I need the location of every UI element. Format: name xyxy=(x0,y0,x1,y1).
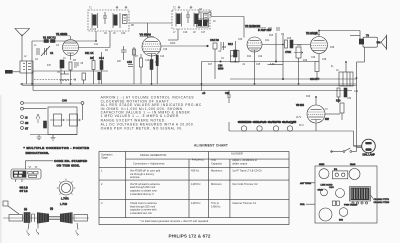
svg-text:Minimum: Minimum xyxy=(211,182,222,186)
svg-text:Via 470M0 pF to conv grid: Via 470M0 pF to conv grid xyxy=(130,169,161,173)
svg-text:C15: C15 xyxy=(127,60,132,64)
svg-text:Check input to antenna: Check input to antenna xyxy=(130,201,157,205)
svg-text:capacitor to series with: capacitor to series with xyxy=(130,208,157,212)
svg-text:ALIGNER: ALIGNER xyxy=(231,152,243,156)
svg-text:CB 4881 PTR/S: CB 4881 PTR/S xyxy=(374,202,390,204)
svg-text:R12: R12 xyxy=(228,42,233,46)
svg-text:antenna.: antenna. xyxy=(130,175,140,179)
svg-text:6.8K: 6.8K xyxy=(270,64,275,66)
svg-text:R13: R13 xyxy=(269,35,274,37)
svg-text:R19: R19 xyxy=(306,96,311,98)
svg-text:C26: C26 xyxy=(311,57,316,59)
svg-text:Via 50 uA lead to antenna: Via 50 uA lead to antenna xyxy=(130,182,160,186)
svg-text:+B: +B xyxy=(202,91,206,95)
svg-text:R6: R6 xyxy=(90,56,94,60)
svg-text:INDICATIONS.: INDICATIONS. xyxy=(26,151,50,155)
svg-text:C40: C40 xyxy=(62,99,67,103)
svg-text:Connections + Adjustments: Connections + Adjustments xyxy=(133,161,165,165)
svg-text:C28: C28 xyxy=(322,59,327,61)
svg-text:a standard osc coil: a standard osc coil xyxy=(130,211,152,215)
svg-text:R14: R14 xyxy=(247,56,252,58)
svg-text:(b): (b) xyxy=(50,208,53,211)
svg-text:PWR TRANS: PWR TRANS xyxy=(344,204,358,207)
svg-text:C1: C1 xyxy=(50,51,54,55)
svg-text:117V: 117V xyxy=(296,117,302,119)
svg-text:R16: R16 xyxy=(303,60,308,62)
svg-text:C20: C20 xyxy=(238,39,243,41)
svg-text:R18: R18 xyxy=(330,47,335,49)
svg-text:6BA6: 6BA6 xyxy=(350,163,356,166)
svg-text:L4 C9: L4 C9 xyxy=(90,29,97,31)
svg-text:* no load output generator amo: * no load output generator amounts + tha… xyxy=(140,219,210,223)
svg-text:47K: 47K xyxy=(47,65,52,67)
svg-text:V2 6BA6: V2 6BA6 xyxy=(140,33,152,37)
svg-text:C17: C17 xyxy=(201,32,206,34)
svg-text:Antenna Trimmer C1: Antenna Trimmer C1 xyxy=(232,201,256,205)
svg-text:C14: C14 xyxy=(99,56,104,60)
svg-text:obtain output: obtain output xyxy=(232,161,247,165)
svg-text:R11 1K: R11 1K xyxy=(85,51,94,55)
svg-text:(a): (a) xyxy=(24,208,27,211)
svg-text:C18 R9: C18 R9 xyxy=(210,38,219,42)
svg-text:6800: 6800 xyxy=(218,68,224,71)
svg-text:470K: 470K xyxy=(230,56,236,58)
svg-text:R10: R10 xyxy=(222,47,227,49)
svg-text:* MULTIPLE CONNECTOR - POINTER: * MULTIPLE CONNECTOR - POINTER xyxy=(24,146,90,150)
svg-text:ON-OFF: ON-OFF xyxy=(310,78,320,81)
svg-text:GT LB: GT LB xyxy=(20,189,28,193)
svg-text:6BE6 6BA6 6AV6 6AQ5: 6BE6 6BA6 6AV6 6AQ5 xyxy=(238,121,297,124)
svg-text:SIGNAL GENERATOR: SIGNAL GENERATOR xyxy=(140,153,166,157)
svg-text:R17: R17 xyxy=(208,64,213,66)
svg-text:ALIGNMENT CHART: ALIGNMENT CHART xyxy=(194,144,228,148)
svg-text:C13: C13 xyxy=(160,56,165,58)
svg-text:DIAL LAMP: DIAL LAMP xyxy=(363,154,376,157)
svg-text:Capacitor: Capacitor xyxy=(211,161,222,165)
svg-text:1M: 1M xyxy=(281,34,284,36)
svg-text:IF AMP DET: IF AMP DET xyxy=(258,29,272,32)
svg-text:1415 Kc: 1415 Kc xyxy=(191,201,201,205)
svg-text:470K: 470K xyxy=(285,50,291,54)
svg-text:C12: C12 xyxy=(145,60,150,62)
svg-text:Stage: Stage xyxy=(101,156,108,160)
svg-text:1st IF Trans L7-L8-C9-C6: 1st IF Trans L7-L8-C9-C6 xyxy=(232,169,262,173)
svg-text:PHILIPS 172 & 672: PHILIPS 172 & 672 xyxy=(169,234,211,239)
svg-text:C30: C30 xyxy=(225,92,230,95)
svg-text:L.7UN: L.7UN xyxy=(60,203,67,206)
svg-text:V3 EABC80: V3 EABC80 xyxy=(245,24,261,28)
svg-text:CB 4881 PT/TR: CB 4881 PT/TR xyxy=(374,199,390,201)
svg-text:DIAL: DIAL xyxy=(300,203,306,206)
svg-text:GB LB: GB LB xyxy=(20,185,28,189)
svg-text:1400 Kc: 1400 Kc xyxy=(211,204,221,208)
svg-text:C25: C25 xyxy=(256,64,261,66)
svg-text:60 C: 60 C xyxy=(299,125,304,127)
svg-text:Osc Coils Trimmer C2: Osc Coils Trimmer C2 xyxy=(232,182,258,186)
svg-text:C19: C19 xyxy=(163,49,168,51)
svg-text:R1 82K R2: R1 82K R2 xyxy=(43,36,56,40)
svg-text:a standard dummy if: a standard dummy if xyxy=(130,192,154,196)
svg-text:L.7WR: L.7WR xyxy=(61,198,69,201)
svg-text:Frequency: Frequency xyxy=(192,158,205,162)
svg-text:455 Kc: 455 Kc xyxy=(191,169,200,173)
svg-text:OSC: OSC xyxy=(329,187,334,189)
svg-text:100K: 100K xyxy=(170,43,176,45)
svg-text:R15: R15 xyxy=(287,38,292,40)
svg-text:CODE NO. STAMPED: CODE NO. STAMPED xyxy=(54,159,88,163)
svg-text:capacitor to obtain max: capacitor to obtain max xyxy=(130,188,158,192)
svg-text:ON THIS SIDE.: ON THIS SIDE. xyxy=(57,163,80,167)
svg-text:GB: GB xyxy=(25,123,29,125)
svg-text:1415 Kc: 1415 Kc xyxy=(191,182,201,186)
svg-text:Trim to: Trim to xyxy=(211,201,220,205)
svg-text:C32: C32 xyxy=(354,91,359,93)
svg-text:Maximum: Maximum xyxy=(211,169,222,173)
svg-text:ANT TERM: ANT TERM xyxy=(300,182,311,185)
svg-text:V1 6BE6: V1 6BE6 xyxy=(56,32,68,36)
svg-text:R20: R20 xyxy=(336,100,341,103)
svg-text:C10: C10 xyxy=(121,33,126,35)
svg-text:C21: C21 xyxy=(265,40,270,42)
svg-text:V5 6X4: V5 6X4 xyxy=(296,104,305,107)
svg-text:6AV6: 6AV6 xyxy=(318,189,324,192)
svg-text:C22: C22 xyxy=(258,56,263,58)
svg-text:VOL: VOL xyxy=(297,45,302,47)
svg-text:C33: C33 xyxy=(347,98,352,100)
svg-text:C16: C16 xyxy=(183,32,188,34)
svg-text:OHMS PER VOLT METER, NO SIGNAL: OHMS PER VOLT METER, NO SIGNAL IN. xyxy=(101,126,183,130)
svg-text:6BE6: 6BE6 xyxy=(319,164,325,166)
svg-text:LINE CORD: LINE CORD xyxy=(321,185,333,187)
